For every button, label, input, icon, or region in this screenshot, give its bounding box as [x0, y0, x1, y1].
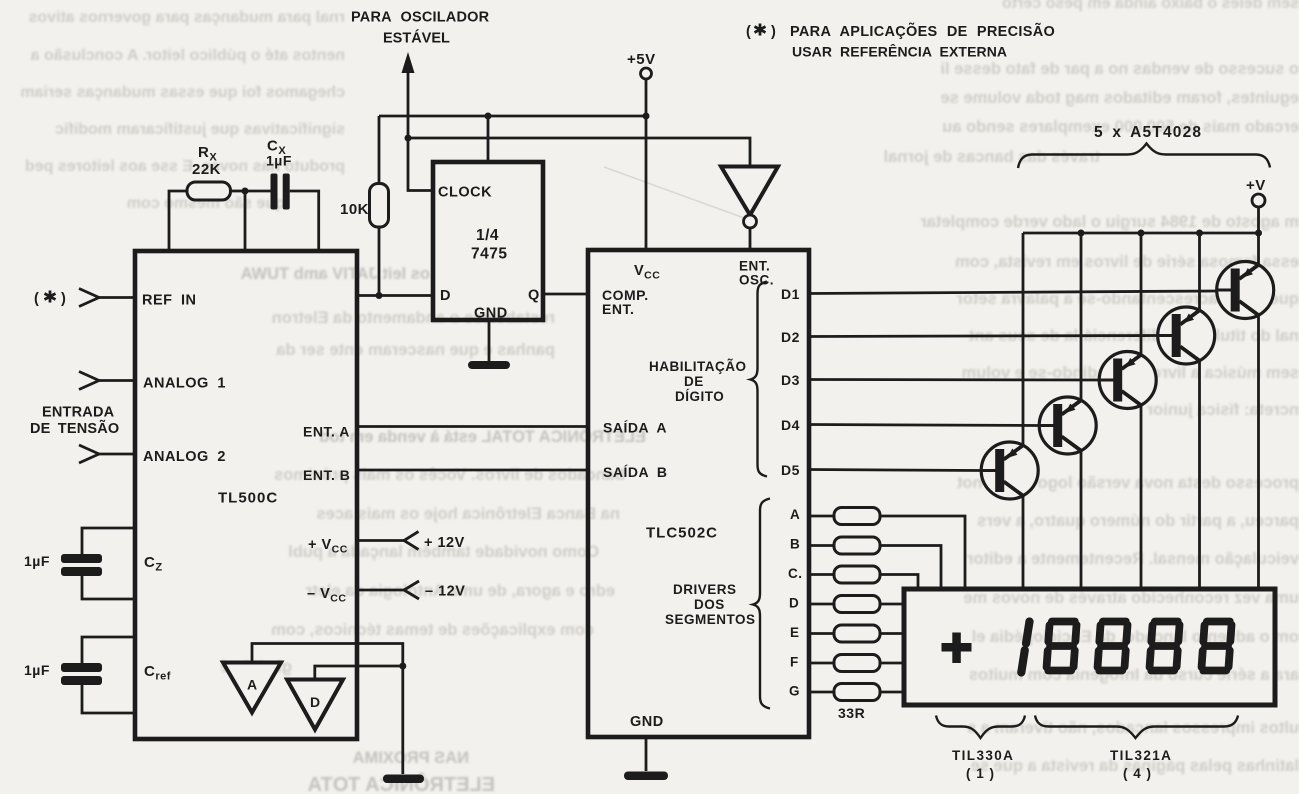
wire: RD to display: [880, 603, 904, 606]
svg-text:G: G: [789, 684, 800, 699]
wire: ANALOG 2 input: [99, 453, 135, 456]
wire: REF IN input: [99, 296, 135, 299]
svg-text:ENT.: ENT.: [602, 301, 634, 317]
svg-text:USAR REFERÊNCIA EXTERNA: USAR REFERÊNCIA EXTERNA: [792, 43, 1007, 60]
svg-text:ENT. B: ENT. B: [303, 467, 350, 483]
junction: rail Q4: [1078, 230, 1085, 237]
wire: 10K pull-up vertical: [378, 116, 381, 296]
arrowhead: to stable oscillator: [402, 52, 415, 73]
comparator D triangle: [287, 680, 343, 730]
wire: D2 to Q2 base: [808, 336, 1158, 337]
svg-text:ANALOG 2: ANALOG 2: [143, 449, 226, 465]
wire: D5 to Q5 base: [808, 470, 982, 471]
wire: segment C stub: [808, 573, 834, 576]
junction: rail Q3: [1138, 230, 1145, 237]
display digit 8 #1 (TIL321A): [1046, 622, 1076, 671]
wire: Rx left leg: [169, 191, 187, 251]
svg-text:+5V: +5V: [627, 51, 656, 68]
wire: Q5 collector to display: [1022, 496, 1025, 590]
inverter U4 triangle: [721, 167, 778, 216]
wire: RB to display: [880, 546, 941, 590]
wire: segment A stub: [808, 515, 834, 518]
svg-text:TIL330A: TIL330A: [952, 748, 1014, 763]
wire: segment F stub: [808, 662, 834, 665]
wire: +Vcc pin to +12V: [357, 539, 404, 542]
transistor Q1 (A5T4028 PNP): [1217, 262, 1274, 319]
wire: RA to display: [880, 516, 965, 589]
ground symbol: A/D comparators: [383, 775, 424, 784]
wire: D1 to Q1 base: [808, 291, 1217, 294]
junction: +5V at Vcc drop: [643, 113, 650, 120]
junction: A/D ground node: [399, 663, 406, 670]
resistor R-B 33R: [834, 537, 880, 554]
svg-text:A: A: [247, 677, 258, 693]
display module body: [904, 589, 1275, 705]
svg-text:chegamos foi que essas mudança: chegamos foi que essas mudanças seriam: [20, 84, 345, 101]
svg-text:ENT. A: ENT. A: [303, 424, 350, 440]
svg-text:D3: D3: [781, 372, 800, 388]
svg-text:parceu, a partir do número qua: parceu, a partir do número quatro, a ver…: [977, 512, 1299, 530]
wire: segment G stub: [808, 691, 834, 694]
wire: 7475 Q to COMP ENT: [543, 293, 588, 296]
wire: comparator D output to ground node: [315, 666, 403, 682]
svg-text:ncreta: física junior: ncreta: física junior: [1146, 401, 1299, 419]
input chevron: ANALOG 1: [79, 372, 99, 390]
capacitor CX plates: [271, 174, 290, 210]
wire: D3 to Q3 base: [808, 378, 1100, 381]
wire: Cz top loop: [82, 528, 135, 554]
wire: +5V rail to 10K: [379, 115, 646, 118]
wire: Q3 collector to display: [1140, 405, 1143, 589]
wire: Q4 collector to display: [1080, 451, 1083, 590]
junction: rail +V: [1255, 230, 1262, 237]
wire: comparator A output to ground node: [252, 644, 403, 667]
display digit 8 #2 (TIL321A): [1097, 622, 1127, 671]
chevron: -12V supply: [404, 581, 419, 599]
transistor Q2 (A5T4028 PNP): [1158, 307, 1215, 364]
svg-text:GND: GND: [630, 714, 664, 730]
svg-text:TIL321A: TIL321A: [1110, 748, 1172, 763]
svg-text:o sucesso de vendas no a par d: o sucesso de vendas no a par de fato des…: [940, 60, 1299, 78]
svg-text:D: D: [310, 694, 321, 710]
wire: ENT A / SAIDA A: [357, 425, 588, 428]
svg-text:( 1 ): ( 1 ): [966, 766, 995, 781]
display polarity sign +: [942, 643, 972, 652]
svg-text:DE: DE: [684, 374, 704, 389]
svg-text:+ 12V: + 12V: [424, 535, 465, 551]
svg-text:om o advento lançado, da Encic: om o advento lançado, da Enciclopédia el: [972, 628, 1299, 646]
svg-text:CLOCK: CLOCK: [438, 185, 492, 201]
brace: A-G segment group: [753, 499, 770, 709]
capacitor CZ plates: [61, 554, 102, 576]
wire: Q3 emitter riser: [1140, 233, 1143, 356]
svg-text:uma vez reconhecido através de: uma vez reconhecido através de novos me: [963, 589, 1299, 607]
svg-text:D5: D5: [781, 462, 800, 478]
wire: Q2 emitter riser: [1198, 233, 1201, 311]
wire: Cx right leg: [290, 191, 319, 251]
svg-text:TL500C: TL500C: [218, 490, 278, 507]
display digit 1 (TIL330A): [1021, 622, 1029, 673]
svg-text:1/4: 1/4: [476, 227, 499, 244]
svg-text:1µF: 1µF: [266, 153, 292, 169]
svg-text:DÍGITO: DÍGITO: [675, 389, 724, 404]
wire: +V emitter rail: [1023, 232, 1259, 235]
svg-text:PARA OSCILADOR: PARA OSCILADOR: [351, 10, 490, 26]
svg-text:SAÍDA A: SAÍDA A: [603, 420, 667, 436]
wire: +5V drop to TLC502C Vcc: [645, 116, 648, 250]
wire: Q2 collector to display: [1198, 361, 1201, 590]
svg-text:F: F: [790, 655, 799, 670]
resistor R-C 33R: [834, 566, 880, 583]
wire: TL500C osc pin to 7475 D: [357, 294, 433, 297]
svg-text:m agosto de 1984 surgiu o lado: m agosto de 1984 surgiu o lado verde com…: [920, 213, 1299, 231]
svg-text:DRIVERS: DRIVERS: [673, 582, 737, 597]
svg-text:ENT.: ENT.: [739, 259, 770, 274]
wire: oscillator arrow line to CLOCK pin: [408, 68, 433, 191]
svg-text:nentos até o público leitor. A: nentos até o público leitor. A conclusão…: [30, 47, 345, 64]
svg-text:ENTRADA: ENTRADA: [42, 405, 115, 421]
svg-text:+V: +V: [1246, 177, 1266, 194]
input chevron: REF IN: [79, 289, 99, 307]
wire: +5V terminal stub: [645, 79, 648, 116]
wire: clock node to inverter input: [408, 138, 750, 168]
svg-text:B: B: [790, 537, 800, 552]
svg-text:com explicações de temas técni: com explicações de temas técnicos, com: [271, 621, 594, 639]
svg-text:Q: Q: [528, 288, 540, 304]
svg-text:E: E: [790, 625, 800, 640]
svg-text:través das bancas de jornal: través das bancas de jornal: [884, 148, 1100, 166]
junction: +5V at 7475 drop: [485, 113, 492, 120]
brace: TIL330A under display: [936, 716, 1025, 739]
wire: RG to display: [880, 691, 904, 694]
junction: rail Q2: [1196, 230, 1203, 237]
wire: RE to display: [880, 632, 904, 635]
svg-text:os leit JATIV amb TUWA: os leit JATIV amb TUWA: [240, 265, 430, 283]
wire: ground node drop: [401, 666, 404, 774]
svg-text:significativas que justificara: significativas que justificaram modific: [55, 121, 345, 138]
svg-text:SEGMENTOS: SEGMENTOS: [665, 612, 756, 627]
wire: node X to Cx: [245, 190, 271, 193]
svg-text:): ): [61, 291, 66, 307]
svg-text:A: A: [790, 507, 800, 522]
wire: 7475 GND stub: [488, 320, 491, 361]
svg-text:DE TENSÃO: DE TENSÃO: [30, 419, 119, 437]
svg-text:1µF: 1µF: [24, 662, 50, 678]
svg-text:D: D: [789, 596, 799, 611]
wire: Cz bottom loop: [82, 576, 135, 599]
chevron: +12V supply: [404, 532, 419, 550]
svg-text:na Banca Eletrônica hoje os ma: na Banca Eletrônica hoje os mais aces: [316, 505, 620, 523]
wire: ENT B / SAIDA B: [357, 469, 588, 472]
ground symbol: TLC502C: [624, 772, 668, 781]
asterisk star (precision note): [755, 24, 766, 36]
resistor RX 22K body: [187, 182, 231, 200]
resistor R-A 33R: [834, 508, 880, 525]
svg-text:veiculação mensal. Recentement: veiculação mensal. Recentemente a editor: [966, 550, 1299, 568]
svg-text:D2: D2: [781, 329, 800, 345]
display digit 8 #4 (TIL321A): [1201, 622, 1231, 671]
terminal: +V: [1252, 194, 1265, 207]
svg-text:ESTÁVEL: ESTÁVEL: [383, 30, 450, 47]
svg-text:HABILITAÇÃO: HABILITAÇÃO: [649, 359, 747, 374]
brace: 5 x A5T4028 group: [1018, 144, 1270, 169]
resistor 10K body: [370, 184, 389, 228]
wire: Q1 emitter riser: [1257, 233, 1260, 266]
wire: Cref bottom loop: [82, 685, 135, 713]
svg-text:( 4 ): ( 4 ): [1123, 766, 1152, 781]
junction: 10K to D line: [376, 292, 383, 299]
wire: RF to display: [880, 662, 904, 665]
wire: Q5 emitter riser: [1022, 233, 1025, 446]
wire: Q4 emitter riser: [1080, 233, 1083, 401]
svg-text:TLC502C: TLC502C: [646, 525, 718, 542]
ground symbol: 7475: [468, 361, 510, 369]
svg-text:eguintes, foram editados mag t: eguintes, foram editados mag toda volume…: [941, 89, 1299, 107]
svg-text:C.: C.: [788, 566, 803, 581]
brace: TIL321A under display: [1035, 716, 1238, 739]
svg-text:DOS: DOS: [694, 597, 725, 612]
svg-text:PARA APLICAÇÕES DE PRECISÃO: PARA APLICAÇÕES DE PRECISÃO: [790, 22, 1055, 40]
svg-text:NAS PROXIMA: NAS PROXIMA: [352, 749, 469, 767]
wire: -Vcc pin to -12V: [357, 589, 404, 592]
wire: Rx to node X: [231, 190, 246, 193]
wire: ANALOG 1 input: [99, 379, 135, 382]
capacitor Cref plates: [61, 663, 102, 685]
transistor Q5 (A5T4028 PNP): [981, 442, 1038, 499]
svg-text:10K: 10K: [340, 201, 369, 218]
IC U1 TL500C body: [135, 251, 357, 739]
comparator A triangle: [223, 663, 281, 713]
inverter U4 bubble: [744, 215, 757, 228]
svg-text:): ): [771, 24, 776, 40]
svg-text:D1: D1: [781, 286, 800, 302]
wire: node X down to TL500C: [244, 191, 247, 251]
svg-text:REF IN: REF IN: [142, 293, 197, 309]
wire: segment D stub: [808, 603, 834, 606]
input chevron: ANALOG 2: [79, 445, 99, 463]
svg-text:D4: D4: [781, 417, 800, 433]
svg-text:ANALOG 1: ANALOG 1: [143, 376, 226, 392]
svg-text:panhas e que nasceram ente ser: panhas e que nasceram ente ser da: [275, 341, 555, 359]
svg-text:D: D: [440, 288, 451, 304]
svg-text:GND: GND: [474, 306, 508, 322]
wire: segment B stub: [808, 544, 834, 547]
resistor R-G 33R: [834, 684, 880, 701]
IC U2 1/4 7475 body: [433, 162, 543, 320]
brace: D1-D5 digit enable group: [751, 282, 768, 477]
svg-text:(: (: [746, 24, 751, 40]
svg-text:5 x A5T4028: 5 x A5T4028: [1094, 124, 1202, 141]
wire: D4 to Q4 base: [808, 425, 1040, 426]
wire: TLC502C GND stub: [645, 737, 648, 771]
resistor R-F 33R: [834, 655, 880, 672]
svg-text:sem deles o baixo ainda em pes: sem deles o baixo ainda em peso certo: [1002, 0, 1299, 12]
svg-text:OSC.: OSC.: [739, 273, 774, 288]
svg-text:1µF: 1µF: [24, 553, 50, 569]
junction: RX/CX node: [242, 188, 249, 195]
display digit 8 #3 (TIL321A): [1149, 622, 1179, 671]
wire: Q1 collector to display: [1257, 315, 1260, 589]
IC U3 TLC502C body: [588, 250, 809, 737]
wire: inverter output to ENT OSC: [749, 228, 752, 250]
svg-text:rnal para mudanças para govern: rnal para mudanças para governos ativos: [28, 9, 345, 26]
wire: Cref top loop: [82, 637, 135, 663]
resistor R-E 33R: [834, 625, 880, 642]
wire: RC to display: [880, 575, 918, 590]
wire: +V terminal stub: [1257, 207, 1260, 233]
svg-text:7475: 7475: [471, 246, 507, 263]
svg-text:– 12V: – 12V: [425, 584, 465, 600]
wire: segment E stub: [808, 632, 834, 635]
junction: clock node: [405, 135, 412, 142]
svg-text:produto nas novas. E sse aos l: produto nas novas. E sse aos leitores pe…: [25, 158, 345, 175]
transistor Q4 (A5T4028 PNP): [1039, 397, 1096, 454]
svg-text:SAÍDA B: SAÍDA B: [603, 464, 668, 480]
terminal: +5V: [641, 68, 652, 79]
svg-text:ELETRÔNICA TOTAL está à venda: ELETRÔNICA TOTAL está à venda em tod: [319, 427, 646, 446]
svg-text:(: (: [34, 291, 39, 307]
wire: +5V drop to 7475 Vcc: [487, 116, 490, 162]
resistor R-D 33R: [834, 596, 880, 613]
svg-text:22K: 22K: [192, 161, 221, 178]
svg-text:33R: 33R: [838, 705, 865, 721]
transistor Q3 (A5T4028 PNP): [1099, 352, 1156, 409]
